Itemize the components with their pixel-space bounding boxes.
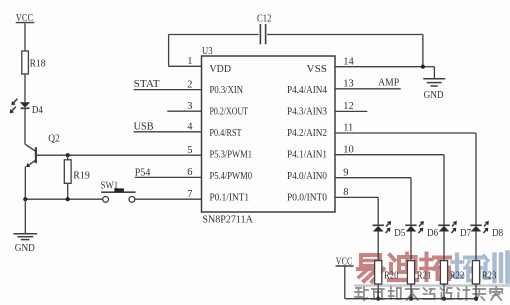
svg-text:14: 14: [343, 56, 354, 67]
svg-text:P0.2/XOUT: P0.2/XOUT: [210, 106, 249, 117]
svg-text:SW1: SW1: [101, 180, 119, 191]
svg-text:P0.1/INT1: P0.1/INT1: [210, 193, 250, 204]
svg-text:12: 12: [343, 101, 354, 112]
svg-text:R21: R21: [417, 271, 432, 282]
svg-text:5: 5: [187, 145, 192, 156]
svg-text:C12: C12: [257, 13, 272, 24]
svg-text:8: 8: [343, 187, 348, 198]
svg-text:USB: USB: [134, 121, 154, 132]
svg-text:GND: GND: [15, 242, 35, 254]
svg-text:D8: D8: [492, 228, 503, 239]
svg-text:P4.1/AIN1: P4.1/AIN1: [287, 149, 327, 160]
svg-text:P0.4/RST: P0.4/RST: [210, 128, 242, 139]
svg-text:R19: R19: [73, 171, 90, 182]
svg-text:P4.0/AIN0: P4.0/AIN0: [287, 171, 327, 182]
svg-text:10: 10: [343, 144, 354, 155]
svg-text:9: 9: [343, 167, 348, 178]
svg-text:13: 13: [343, 79, 354, 90]
svg-text:R22: R22: [450, 271, 465, 282]
svg-text:STAT: STAT: [134, 79, 161, 90]
svg-text:R20: R20: [384, 271, 399, 282]
svg-text:R18: R18: [30, 59, 46, 70]
svg-text:D6: D6: [427, 228, 438, 239]
svg-text:U3: U3: [202, 46, 213, 57]
svg-text:P54: P54: [135, 168, 151, 179]
svg-text:Q2: Q2: [48, 133, 60, 144]
svg-text:D4: D4: [32, 105, 44, 116]
svg-text:P5.3/PWM1: P5.3/PWM1: [210, 149, 253, 160]
svg-text:P0.0/INT0: P0.0/INT0: [287, 193, 327, 204]
svg-text:P0.3/XIN: P0.3/XIN: [210, 85, 244, 96]
svg-text:VCC: VCC: [16, 13, 34, 24]
svg-text:VSS: VSS: [307, 64, 328, 75]
svg-text:GND: GND: [424, 89, 444, 101]
svg-text:D7: D7: [460, 228, 471, 239]
svg-text:VCC: VCC: [336, 256, 353, 267]
svg-text:7: 7: [187, 189, 192, 200]
svg-text:P5.4/PWM0: P5.4/PWM0: [210, 171, 253, 182]
svg-text:1: 1: [187, 56, 192, 67]
svg-text:AMP: AMP: [378, 78, 399, 89]
svg-text:3: 3: [187, 101, 192, 112]
svg-text:R23: R23: [482, 271, 497, 282]
svg-text:P4.2/AIN2: P4.2/AIN2: [287, 128, 327, 139]
svg-text:2: 2: [187, 79, 192, 90]
svg-text:D5: D5: [394, 228, 405, 239]
svg-text:P4.3/AIN3: P4.3/AIN3: [287, 106, 327, 117]
svg-text:4: 4: [187, 122, 193, 133]
svg-text:VDD: VDD: [210, 64, 232, 75]
svg-text:SN8P2711A: SN8P2711A: [202, 215, 253, 226]
svg-text:P4.4/AIN4: P4.4/AIN4: [287, 85, 328, 96]
svg-text:6: 6: [187, 167, 192, 178]
svg-text:11: 11: [343, 123, 353, 134]
